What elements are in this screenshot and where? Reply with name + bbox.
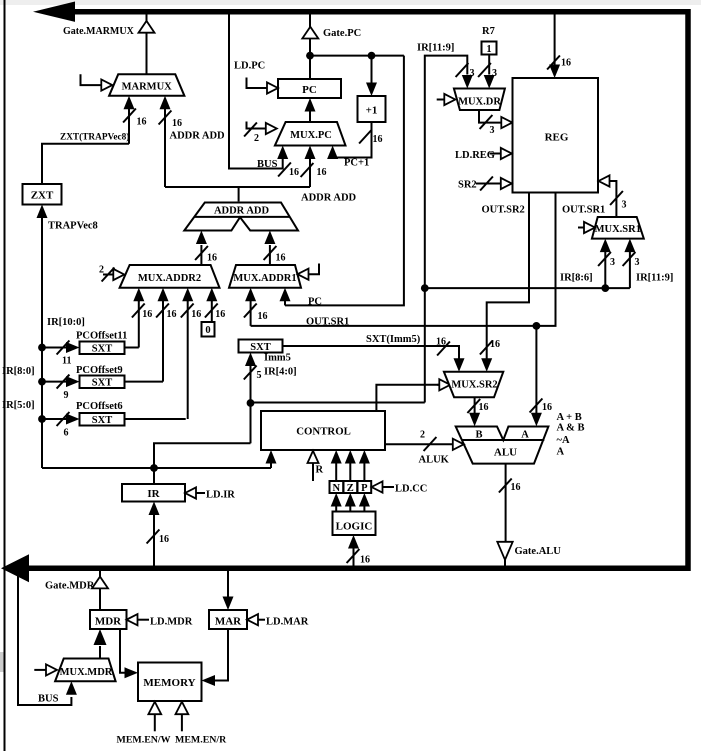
svg-text:16: 16 [276, 253, 286, 264]
svg-text:16: 16 [215, 309, 225, 320]
svg-text:A + B: A + B [557, 412, 582, 423]
svg-text:A & B: A & B [557, 423, 585, 434]
svg-text:CONTROL: CONTROL [296, 426, 351, 438]
svg-text:9: 9 [64, 390, 69, 401]
svg-text:3: 3 [610, 257, 615, 268]
svg-text:16: 16 [191, 309, 201, 320]
svg-text:16: 16 [159, 534, 169, 545]
svg-text:3: 3 [635, 257, 640, 268]
svg-text:LD.MDR: LD.MDR [150, 617, 193, 628]
svg-text:Z: Z [347, 483, 354, 494]
svg-text:OUT.SR1: OUT.SR1 [562, 205, 605, 216]
svg-text:SXT: SXT [92, 344, 112, 355]
svg-text:ZXT(TRAPVec8): ZXT(TRAPVec8) [60, 132, 129, 143]
svg-text:16: 16 [172, 118, 182, 129]
svg-text:16: 16 [167, 309, 177, 320]
svg-text:IR[11:9]: IR[11:9] [417, 43, 454, 54]
svg-text:16: 16 [360, 555, 370, 566]
svg-text:3: 3 [470, 68, 475, 79]
svg-text:LD.REG: LD.REG [455, 150, 495, 161]
svg-text:MEM.EN/W: MEM.EN/W [117, 735, 171, 746]
svg-text:+1: +1 [366, 105, 378, 117]
svg-text:IR[10:0]: IR[10:0] [47, 317, 85, 328]
svg-text:LOGIC: LOGIC [336, 521, 373, 533]
svg-text:16: 16 [207, 253, 217, 264]
svg-text:16: 16 [258, 311, 268, 322]
svg-text:3: 3 [622, 200, 627, 211]
svg-text:SR2: SR2 [458, 180, 477, 191]
svg-text:LD.IR: LD.IR [206, 490, 235, 501]
svg-text:6: 6 [64, 428, 69, 439]
svg-text:16: 16 [373, 134, 383, 145]
svg-text:IR[8:0]: IR[8:0] [2, 366, 35, 377]
svg-text:11: 11 [62, 356, 71, 367]
svg-text:ALUK: ALUK [419, 455, 450, 466]
svg-text:16: 16 [137, 117, 147, 128]
svg-text:MEM.EN/R: MEM.EN/R [175, 735, 227, 746]
svg-text:MARMUX: MARMUX [122, 82, 173, 93]
svg-text:IR[4:0]: IR[4:0] [264, 367, 297, 378]
svg-text:A: A [557, 447, 565, 458]
svg-text:R7: R7 [482, 26, 495, 37]
svg-text:BUS: BUS [38, 694, 59, 705]
svg-text:SXT: SXT [250, 342, 270, 353]
svg-text:R: R [316, 465, 324, 476]
svg-text:MEMORY: MEMORY [143, 677, 195, 689]
svg-text:5: 5 [257, 370, 262, 381]
svg-text:2: 2 [99, 265, 104, 276]
svg-text:SXT(Imm5): SXT(Imm5) [366, 334, 421, 345]
svg-text:MUX.PC: MUX.PC [290, 130, 332, 141]
svg-text:PCOffset6: PCOffset6 [76, 401, 123, 412]
svg-text:16: 16 [436, 337, 446, 348]
svg-text:3: 3 [492, 68, 497, 79]
svg-text:MUX.MDR: MUX.MDR [60, 667, 113, 678]
svg-text:LD.MAR: LD.MAR [266, 617, 309, 628]
svg-text:IR: IR [147, 488, 160, 500]
svg-text:IR[11:9]: IR[11:9] [636, 273, 673, 284]
svg-text:~A: ~A [557, 435, 570, 446]
svg-text:PCOffset9: PCOffset9 [76, 365, 123, 376]
svg-text:16: 16 [490, 339, 500, 350]
svg-text:A: A [521, 430, 529, 441]
svg-text:PC: PC [302, 84, 317, 96]
svg-text:SXT: SXT [92, 378, 112, 389]
svg-text:MUX.SR2: MUX.SR2 [451, 380, 497, 391]
svg-text:Gate.PC: Gate.PC [323, 28, 361, 39]
svg-text:Gate.ALU: Gate.ALU [515, 546, 562, 557]
svg-text:MUX.DR: MUX.DR [458, 97, 501, 108]
svg-text:16: 16 [289, 167, 299, 178]
svg-text:16: 16 [561, 58, 571, 69]
svg-text:OUT.SR2: OUT.SR2 [482, 205, 525, 216]
svg-text:MUX.ADDR2: MUX.ADDR2 [138, 273, 201, 284]
svg-text:Imm5: Imm5 [264, 353, 291, 364]
svg-text:ALU: ALU [494, 447, 517, 459]
svg-text:LD.CC: LD.CC [395, 484, 427, 495]
svg-text:B: B [475, 430, 482, 441]
svg-text:ZXT: ZXT [31, 190, 54, 202]
svg-text:MUX.ADDR1: MUX.ADDR1 [233, 273, 296, 284]
svg-text:ADDR ADD: ADDR ADD [301, 193, 357, 204]
svg-text:16: 16 [142, 309, 152, 320]
svg-text:REG: REG [545, 132, 569, 144]
svg-text:16: 16 [479, 402, 489, 413]
svg-text:3: 3 [490, 125, 495, 136]
svg-text:2: 2 [254, 133, 259, 144]
svg-text:1: 1 [486, 44, 491, 55]
svg-text:0: 0 [205, 325, 210, 336]
svg-text:TRAPVec8: TRAPVec8 [48, 221, 98, 232]
svg-text:PC+1: PC+1 [344, 158, 369, 169]
svg-text:N: N [333, 483, 341, 494]
svg-text:BUS: BUS [257, 159, 278, 170]
svg-text:Gate.MARMUX: Gate.MARMUX [63, 26, 135, 37]
svg-text:IR[5:0]: IR[5:0] [2, 400, 35, 411]
svg-text:MUX.SR1: MUX.SR1 [595, 224, 641, 235]
svg-text:PCOffset11: PCOffset11 [76, 331, 127, 342]
svg-text:Gate.MDR: Gate.MDR [45, 581, 95, 592]
svg-text:16: 16 [511, 482, 521, 493]
svg-text:2: 2 [420, 430, 425, 441]
svg-text:LD.PC: LD.PC [234, 61, 265, 72]
svg-text:PC: PC [308, 297, 322, 308]
svg-text:P: P [361, 483, 368, 494]
svg-text:ADDR ADD: ADDR ADD [214, 206, 270, 217]
svg-text:16: 16 [317, 167, 327, 178]
svg-text:ADDR ADD: ADDR ADD [170, 131, 226, 142]
svg-text:SXT: SXT [92, 415, 112, 426]
svg-text:MAR: MAR [215, 616, 242, 628]
svg-text:IR[8:6]: IR[8:6] [560, 273, 593, 284]
svg-text:MDR: MDR [95, 616, 122, 628]
svg-text:16: 16 [542, 402, 552, 413]
